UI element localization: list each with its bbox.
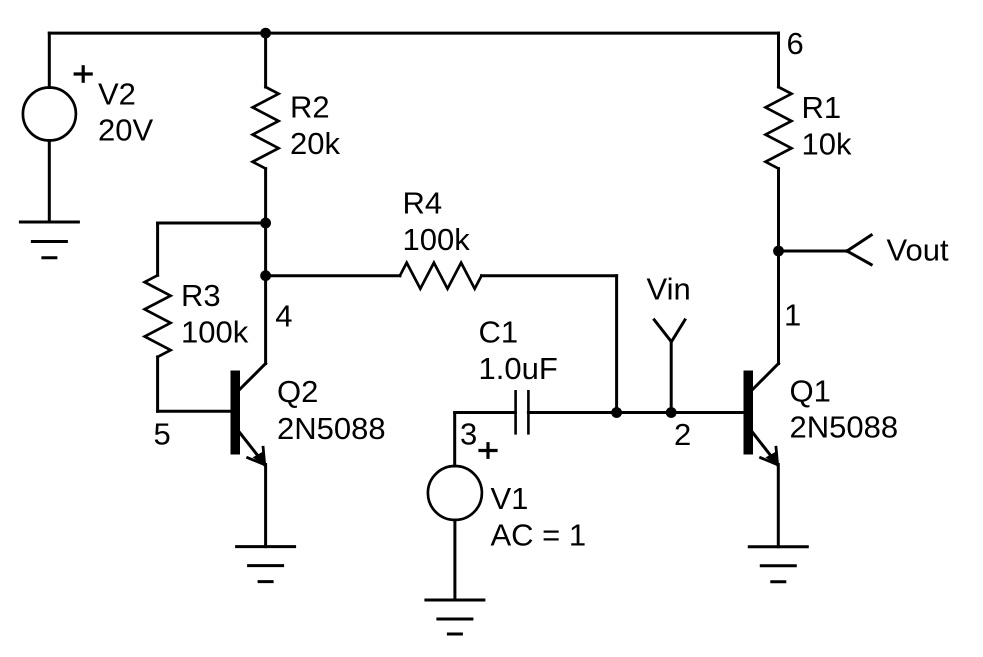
node junction dot top rail at R2 [260, 28, 271, 39]
wire Q2 base horizontal [158, 410, 231, 413]
transistor Q2 base bar [231, 371, 241, 455]
voltage source V2 circle [23, 88, 76, 141]
svg-text:V1: V1 [491, 481, 529, 516]
node 2 label [674, 417, 691, 452]
R3 value label [181, 278, 249, 349]
node junction dot Vout tap [773, 246, 784, 257]
svg-text:1.0uF: 1.0uF [479, 351, 558, 386]
svg-text:R2: R2 [290, 90, 330, 125]
svg-text:100k: 100k [403, 222, 471, 257]
svg-text:C1: C1 [479, 315, 519, 350]
V1 plus sign [480, 444, 496, 458]
node 4 label [275, 298, 292, 333]
node 2 junction dot Vin tap [666, 407, 677, 418]
resistor R3 [145, 275, 171, 357]
transistor Q2 collector diagonal [240, 364, 266, 390]
transistor Q1 collector diagonal [753, 364, 779, 390]
node 1 label [784, 297, 801, 332]
svg-text:20k: 20k [290, 126, 340, 161]
V2 plus sign [75, 67, 91, 81]
R2 value label [290, 90, 340, 161]
transistor Q1 emitter diagonal [753, 433, 778, 465]
resistor R2 [253, 87, 279, 169]
transistor Q2 emitter diagonal [240, 433, 265, 465]
svg-text:Q2: Q2 [277, 374, 318, 409]
node 5 label [154, 416, 171, 451]
V1 value label [491, 481, 587, 552]
resistor R4 [400, 263, 482, 289]
wire top rail from V2 to R1 [49, 32, 778, 35]
R1 value label [802, 90, 852, 161]
svg-text:10k: 10k [802, 126, 852, 161]
svg-text:4: 4 [275, 298, 292, 333]
svg-text:1: 1 [784, 297, 801, 332]
Q1 label [790, 373, 899, 444]
node 4 junction dot R4 tap [260, 270, 271, 281]
wire between taps [264, 223, 267, 276]
wire R1 top lead [777, 33, 780, 87]
wire Vin stem [670, 342, 673, 413]
svg-text:5: 5 [154, 416, 171, 451]
svg-text:V2: V2 [98, 76, 136, 111]
svg-text:3: 3 [460, 417, 477, 452]
wire C1 left lead [455, 411, 516, 414]
wire Q1 emitter lead [777, 465, 780, 547]
node junction dot R4 at main wire [611, 407, 622, 418]
svg-text:Vin: Vin [647, 272, 691, 307]
wire R1 bottom lead [777, 169, 780, 251]
wire R4 right horizontal [482, 274, 617, 277]
wire C1 right lead to Q1 base [528, 411, 743, 414]
wire Q2 collector vertical [264, 276, 267, 364]
transistor Q1 emitter arrowhead [761, 447, 778, 464]
resistor R1 [766, 87, 792, 169]
svg-text:20V: 20V [98, 113, 153, 148]
svg-text:2N5088: 2N5088 [277, 411, 386, 446]
node junction dot R3 tap [260, 218, 271, 229]
wire R3 top horizontal [158, 222, 266, 225]
wire V1 bottom lead [453, 520, 456, 600]
wire R3 bottom lead [156, 357, 159, 411]
node 6 label [787, 26, 804, 61]
Q2 label [277, 374, 386, 446]
svg-text:R1: R1 [802, 90, 842, 125]
ground under V2 [20, 222, 78, 258]
wire V2 bottom lead [48, 141, 51, 223]
svg-text:6: 6 [787, 26, 804, 61]
ground under Q1 [749, 547, 807, 582]
ground under V1 [426, 600, 484, 634]
V2 value label [98, 76, 153, 147]
C1 value label [479, 315, 558, 386]
R4 value label [403, 186, 471, 257]
Vout probe symbol [847, 235, 871, 265]
wire R4 down to node 2 [615, 276, 618, 413]
svg-text:R3: R3 [181, 278, 221, 313]
capacitor C1 plates [516, 391, 529, 433]
transistor Q2 emitter arrowhead [248, 447, 265, 464]
svg-text:2N5088: 2N5088 [790, 410, 899, 445]
svg-text:100k: 100k [181, 314, 249, 349]
wire R2 bottom lead [264, 169, 267, 223]
wire V2 top lead [48, 33, 51, 87]
wire V1 top lead [453, 413, 456, 467]
Vout label [887, 233, 949, 268]
svg-text:2: 2 [674, 417, 691, 452]
wire R3 top lead [156, 223, 159, 275]
wire Q2 emitter lead [264, 465, 267, 547]
wire Vout horizontal [779, 250, 848, 253]
wire R4 left horizontal [266, 274, 400, 277]
svg-text:AC = 1: AC = 1 [491, 517, 587, 552]
ground under Q2 [237, 547, 295, 582]
transistor Q1 base bar [744, 371, 754, 455]
svg-text:Vout: Vout [887, 233, 949, 268]
node 3 label [460, 417, 477, 452]
svg-text:Q1: Q1 [790, 373, 831, 408]
voltage source V1 circle [428, 466, 482, 520]
wire Q1 collector vertical [777, 251, 780, 364]
wire R2 top lead [264, 33, 267, 87]
Vin antenna symbol [654, 320, 685, 342]
Vin label [647, 272, 691, 307]
svg-text:R4: R4 [403, 186, 443, 221]
